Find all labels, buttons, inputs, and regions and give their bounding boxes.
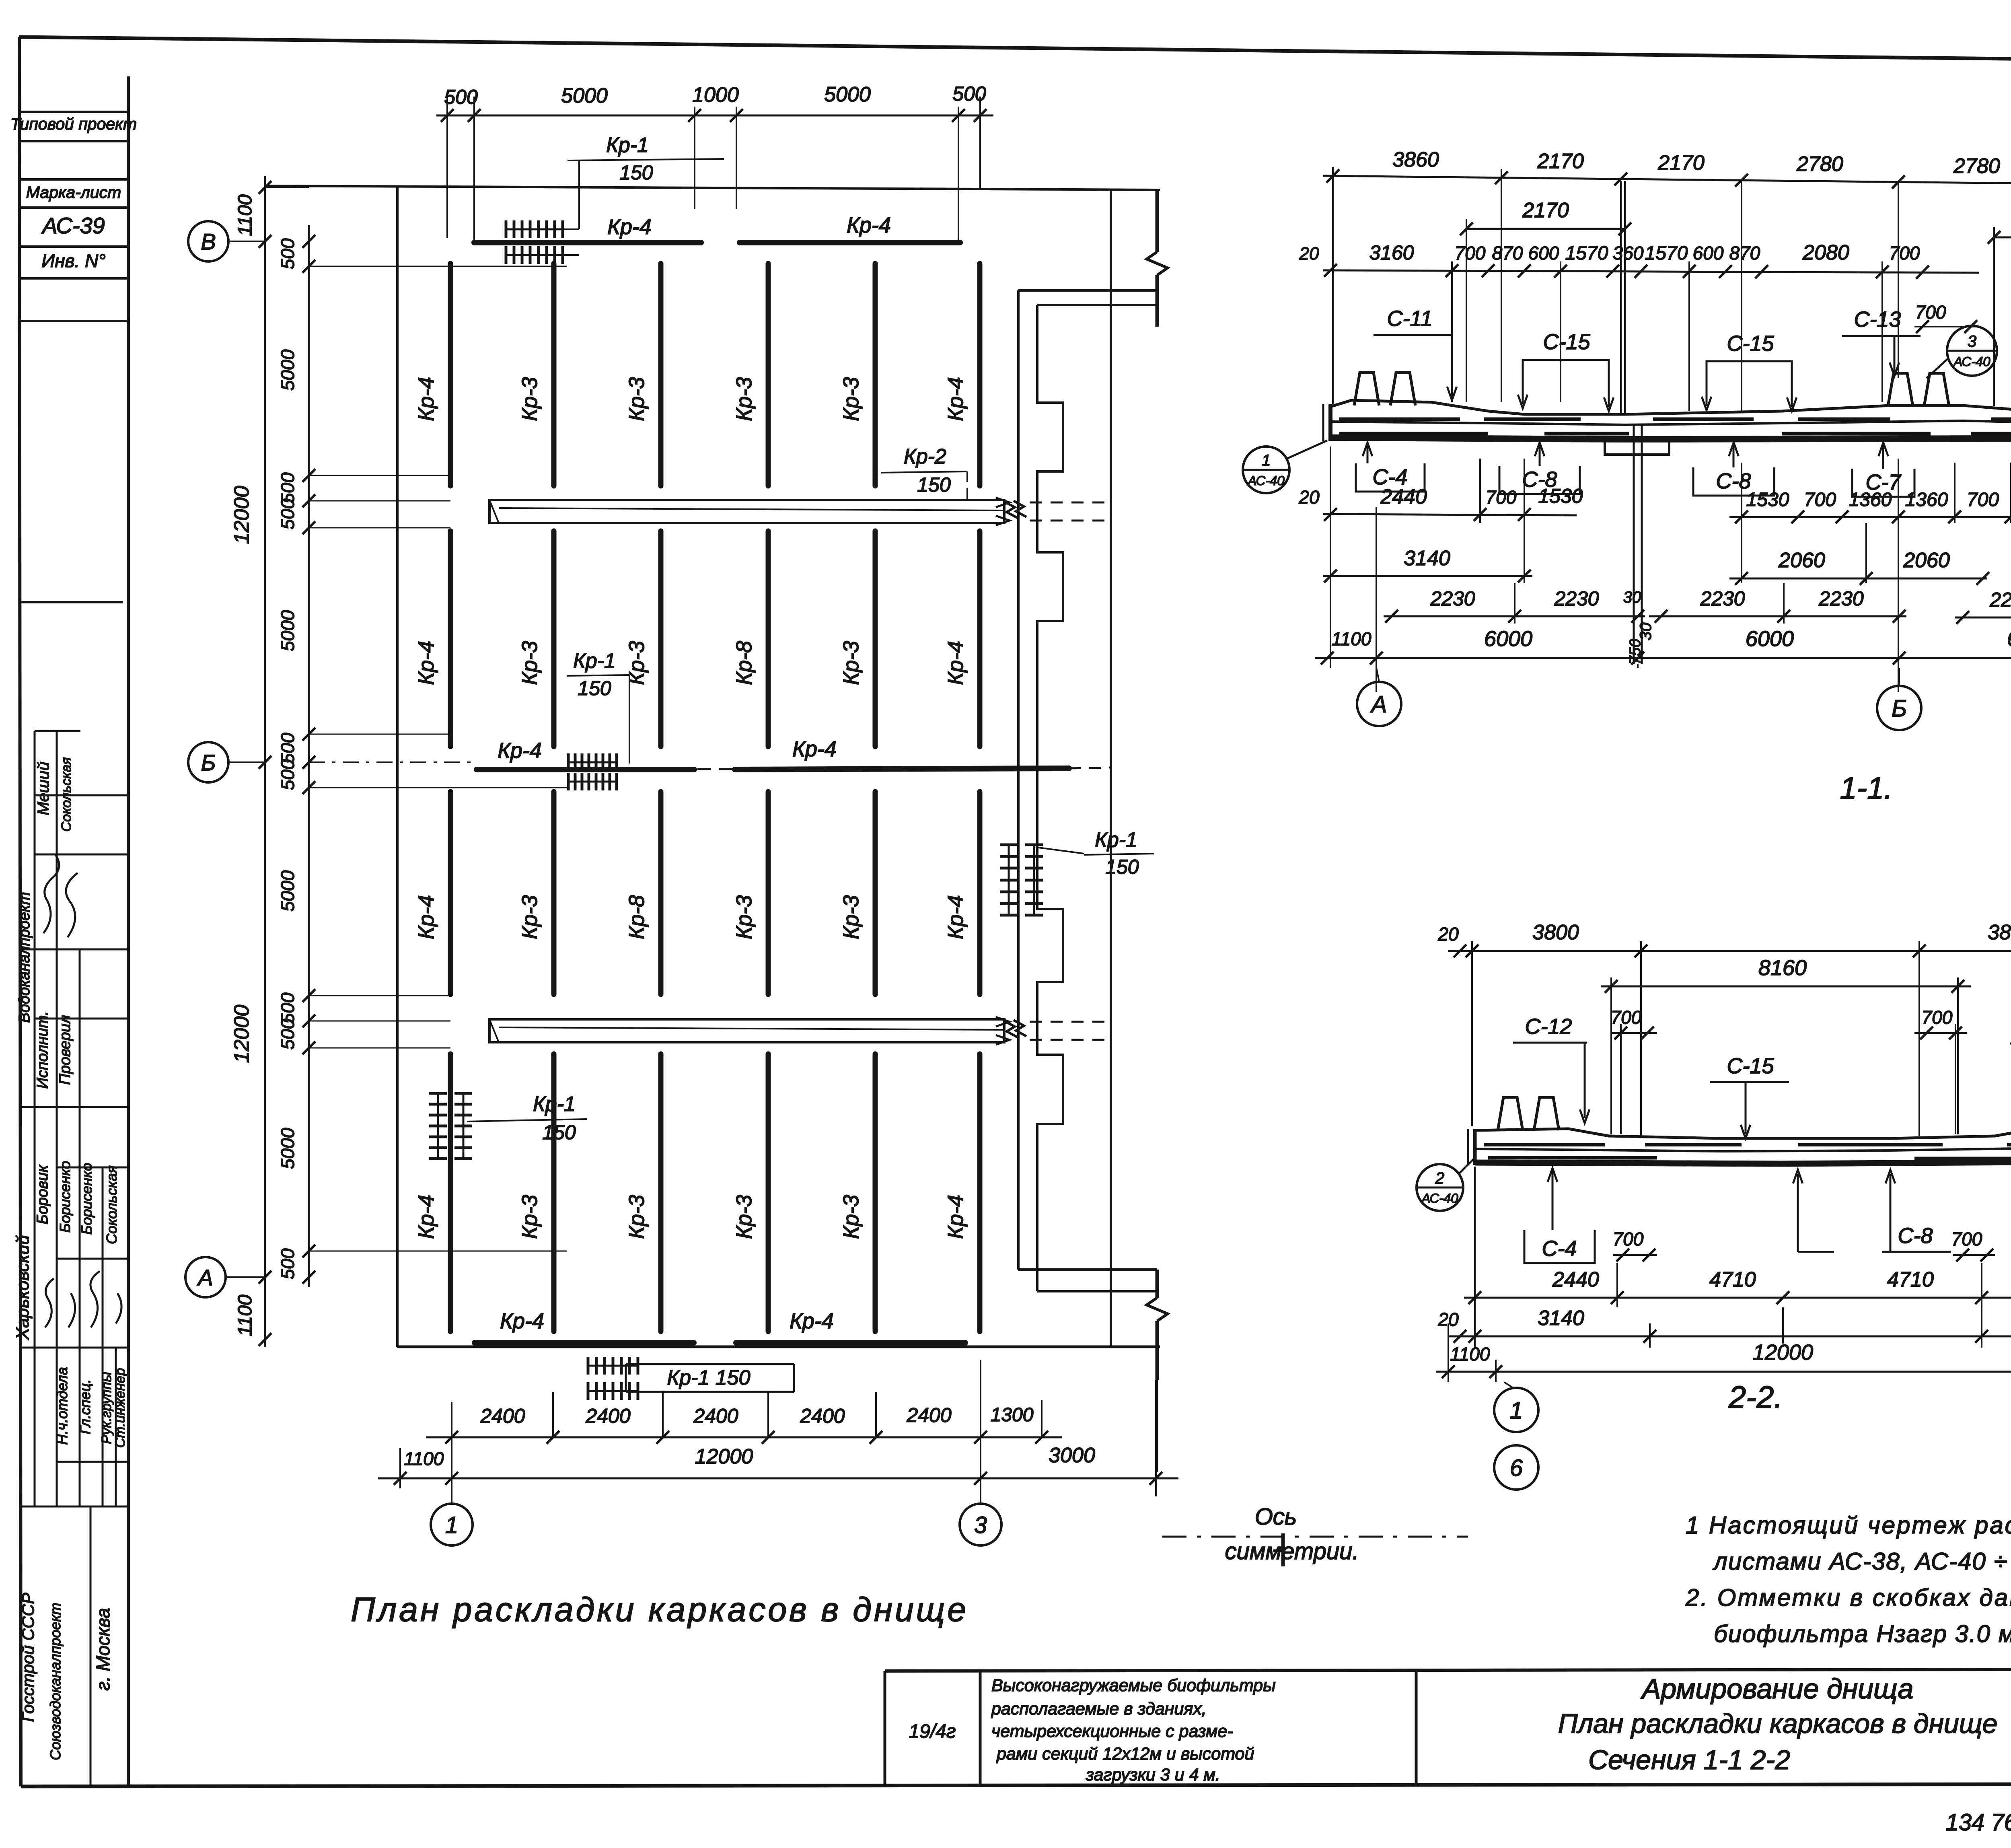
top dim extension lines <box>446 97 448 238</box>
svg-text:1100: 1100 <box>234 1294 256 1336</box>
svg-text:Б: Б <box>1892 696 1907 722</box>
svg-text:С-8: С-8 <box>1898 1224 1933 1248</box>
svg-text:Кр-4: Кр-4 <box>498 739 542 763</box>
vertical bar Кр-8 band 2 <box>766 531 771 747</box>
left inner dim chain (500/5000) <box>308 225 310 1287</box>
vertical bar Кр-3 band 4 <box>873 1054 878 1331</box>
svg-text:симметрии.: симметрии. <box>1225 1538 1359 1564</box>
svg-text:2400: 2400 <box>906 1404 951 1426</box>
svg-text:3160: 3160 <box>1369 241 1414 264</box>
svg-text:АС-40: АС-40 <box>1953 354 1990 369</box>
svg-text:30: 30 <box>1637 623 1655 641</box>
svg-text:Кр-1: Кр-1 <box>606 134 649 157</box>
svg-text:1530: 1530 <box>1538 485 1583 507</box>
section 2-2 slab second line <box>1475 1147 2011 1151</box>
svg-text:2400: 2400 <box>585 1405 630 1427</box>
svg-text:6000: 6000 <box>2007 627 2011 651</box>
svg-text:Армирование днища: Армирование днища <box>1641 1673 1914 1704</box>
svg-text:1100: 1100 <box>404 1448 444 1469</box>
callout circle 2/АС-40 <box>1417 1164 1463 1211</box>
svg-text:Кр-3: Кр-3 <box>625 641 649 685</box>
svg-text:В: В <box>201 229 216 254</box>
svg-text:2170: 2170 <box>1537 150 1584 173</box>
plan left edge <box>396 186 399 1347</box>
section 2-2 slab top line <box>1475 1129 2011 1138</box>
svg-text:Сокольская: Сокольская <box>103 1165 120 1244</box>
svg-text:Боровик: Боровик <box>34 1164 51 1224</box>
bottom dim extension lines <box>552 1392 554 1437</box>
svg-text:3: 3 <box>974 1512 987 1538</box>
svg-text:19/4г: 19/4г <box>909 1721 956 1742</box>
svg-text:2060: 2060 <box>1778 549 1825 572</box>
svg-text:700: 700 <box>1613 1229 1644 1249</box>
svg-text:Проверил: Проверил <box>57 1015 74 1085</box>
bottom dim row 2400s <box>426 1436 1062 1438</box>
svg-text:Кр-3: Кр-3 <box>518 377 542 421</box>
svg-text:870: 870 <box>1729 243 1760 263</box>
svg-text:рами секций 12х12м и высотой: рами секций 12х12м и высотой <box>996 1744 1254 1764</box>
svg-text:700: 700 <box>1922 1007 1953 1028</box>
svg-text:С-15: С-15 <box>1727 331 1774 356</box>
svg-text:Сокольская: Сокольская <box>59 757 74 832</box>
svg-text:3140: 3140 <box>1538 1307 1584 1330</box>
label box С-8 b <box>1693 467 1774 496</box>
svg-text:30: 30 <box>1623 589 1641 606</box>
svg-text:С-4: С-4 <box>1542 1237 1577 1261</box>
svg-text:360: 360 <box>1613 243 1644 263</box>
svg-text:Кр-4: Кр-4 <box>944 641 968 685</box>
2-2 dim row F <box>1436 1371 2011 1373</box>
svg-text:150: 150 <box>578 677 611 700</box>
signature scribbles <box>43 855 59 933</box>
svg-text:Кр-8: Кр-8 <box>625 895 649 939</box>
svg-text:Кр-3: Кр-3 <box>732 895 756 939</box>
svg-text:3140: 3140 <box>1404 547 1450 570</box>
stamp column right edge <box>127 76 130 1786</box>
svg-text:С-15: С-15 <box>1727 1054 1774 1078</box>
svg-text:Госстрой СССР: Госстрой СССР <box>19 1593 37 1722</box>
wall inner face <box>1110 189 1112 1347</box>
svg-text:Кр-3: Кр-3 <box>839 641 863 685</box>
page border top <box>19 37 2011 64</box>
svg-text:Кр-3: Кр-3 <box>732 1195 756 1239</box>
svg-text:150: 150 <box>542 1121 576 1144</box>
plan bottom edge <box>397 1346 1160 1348</box>
svg-text:А: А <box>1370 691 1387 718</box>
svg-text:2230: 2230 <box>1989 589 2011 611</box>
bottom dim row 1100/12000/3000 <box>378 1478 1178 1480</box>
svg-text:1570: 1570 <box>1565 243 1608 264</box>
vertical bar Кр-4 band 1 <box>977 263 983 486</box>
svg-text:Кр-4: Кр-4 <box>414 1195 438 1239</box>
Кр-4 bar row at axis А <box>475 1340 694 1346</box>
svg-text:Кр-3: Кр-3 <box>625 1195 649 1239</box>
axis circle 3 <box>960 1504 1001 1545</box>
1-1 extension verticals above slab <box>1332 167 1334 404</box>
svg-text:700: 700 <box>1486 487 1517 508</box>
2-2 dim row E <box>1448 1336 2011 1338</box>
vertical bar Кр-4 band 4 <box>448 1054 453 1331</box>
svg-text:Кр-4: Кр-4 <box>944 1195 968 1239</box>
1-1 dim row B left 2170 <box>1466 228 1625 230</box>
svg-text:3000: 3000 <box>1049 1444 1095 1467</box>
vertical bar Кр-4 band 4 <box>977 1054 983 1331</box>
svg-text:Рук.группы: Рук.группы <box>99 1372 114 1444</box>
svg-text:Б: Б <box>201 750 216 775</box>
svg-text:8160: 8160 <box>1758 956 1807 980</box>
label Кр-1 150 box bottom <box>626 1363 794 1365</box>
svg-text:12000: 12000 <box>695 1445 753 1468</box>
svg-text:листами АС-38, АС-40 ÷ АС-46: листами АС-38, АС-40 ÷ АС-46. <box>1713 1548 2011 1575</box>
left outer dim chain (1100/12000) <box>264 176 266 1347</box>
1-1 dim row F <box>1384 615 1645 617</box>
label box С-4 2-2 <box>1524 1230 1595 1263</box>
plan top edge <box>265 186 1160 190</box>
axis circle В <box>188 221 228 261</box>
callout circle 1/АС-40 left <box>1243 447 1289 493</box>
left dim extension stubs <box>309 266 567 267</box>
section 2-2 slab bottom bold <box>1475 1162 2011 1164</box>
beam strip 2 <box>489 1019 1004 1042</box>
2-2 extension verticals above <box>1471 941 1473 1126</box>
svg-text:1-1.: 1-1. <box>1840 771 1893 805</box>
rebar dashes 2-2 <box>1484 1143 1605 1146</box>
callout circle 3/АС-40 <box>1947 326 1997 376</box>
svg-text:3860: 3860 <box>1392 148 1439 171</box>
svg-text:Кр-3: Кр-3 <box>839 895 863 939</box>
2-2 extension verticals below <box>1474 1167 1476 1348</box>
label box С-4 left <box>1356 463 1425 492</box>
svg-text:Союзводоканалпроект: Союзводоканалпроект <box>47 1603 64 1760</box>
svg-text:700: 700 <box>1889 243 1920 263</box>
svg-text:2-2.: 2-2. <box>1728 1379 1783 1415</box>
humps section 1-1 center <box>1888 373 1949 406</box>
svg-text:500: 500 <box>277 733 298 763</box>
wall top double lines <box>1018 289 1157 292</box>
svg-text:2170: 2170 <box>1522 199 1569 222</box>
svg-text:Кр-4: Кр-4 <box>414 895 438 939</box>
vertical bar Кр-3 band 3 <box>766 792 771 994</box>
svg-text:Кр-4: Кр-4 <box>414 641 438 685</box>
svg-text:1300: 1300 <box>991 1404 1034 1426</box>
svg-text:1: 1 <box>1262 452 1271 469</box>
svg-text:500: 500 <box>952 82 986 105</box>
svg-text:Кр-1: Кр-1 <box>533 1093 576 1116</box>
svg-text:Кр-1: Кр-1 <box>573 649 616 673</box>
svg-text:2. Отметки в скобках даны для: 2. Отметки в скобках даны для высоты заг… <box>1685 1584 2011 1611</box>
svg-text:700: 700 <box>1611 1007 1642 1028</box>
vertical bar Кр-4 band 1 <box>448 263 453 486</box>
svg-text:четырехсекционные с разме-: четырехсекционные с разме- <box>991 1722 1233 1741</box>
svg-text:Кр-4: Кр-4 <box>792 737 837 761</box>
vertical bar Кр-3 band 4 <box>658 1054 664 1331</box>
svg-text:3800: 3800 <box>1532 921 1579 944</box>
svg-text:Борисенко: Борисенко <box>78 1163 95 1235</box>
svg-text:500: 500 <box>277 238 298 269</box>
vertical bar Кр-4 band 3 <box>977 792 983 994</box>
svg-text:С-15: С-15 <box>1543 330 1590 354</box>
svg-text:1530: 1530 <box>1746 489 1789 510</box>
axis circle 1 <box>431 1504 473 1545</box>
svg-text:6000: 6000 <box>1746 627 1794 651</box>
wall outer line upper segment with break <box>1156 189 1159 252</box>
svg-text:С-12: С-12 <box>1525 1015 1572 1039</box>
svg-text:Ст.инженер: Ст.инженер <box>113 1368 128 1448</box>
svg-text:Сечения 1-1 2-2: Сечения 1-1 2-2 <box>1588 1745 1790 1775</box>
svg-text:600: 600 <box>1528 243 1559 263</box>
vertical bar Кр-3 band 3 <box>873 792 878 994</box>
2-2 dim row B 8160 <box>1601 986 1971 988</box>
svg-text:500: 500 <box>444 86 478 108</box>
svg-text:Кр-4: Кр-4 <box>790 1309 834 1333</box>
svg-text:Кр-3: Кр-3 <box>518 1195 542 1239</box>
humps section 1-1 left <box>1354 372 1415 405</box>
svg-text:1570: 1570 <box>1645 243 1688 264</box>
svg-text:2230: 2230 <box>1554 587 1599 610</box>
svg-text:Кр-4: Кр-4 <box>607 215 652 239</box>
symmetry axis marker <box>1281 1533 1285 1566</box>
svg-text:150: 150 <box>619 161 653 184</box>
page border left <box>19 37 21 1786</box>
svg-text:Высоконагружаемые биофильтры: Высоконагружаемые биофильтры <box>991 1676 1276 1695</box>
hatch combs at В <box>506 228 563 230</box>
stamp top cells <box>19 111 128 113</box>
svg-text:500: 500 <box>277 1019 298 1050</box>
vertical bar Кр-3 band 1 <box>658 263 664 486</box>
wall long inner vertical <box>1017 290 1020 1270</box>
vertical bar Кр-4 band 2 <box>977 531 983 747</box>
svg-text:5000: 5000 <box>561 84 608 107</box>
svg-text:План раскладки каркасов в д: План раскладки каркасов в днище <box>351 1591 968 1628</box>
stamp bottom org cell <box>90 1506 92 1786</box>
svg-text:700: 700 <box>1951 1229 1982 1249</box>
svg-text:2440: 2440 <box>1552 1268 1599 1291</box>
svg-text:2230: 2230 <box>1818 587 1863 610</box>
joint 1 below slab <box>1633 425 1635 664</box>
svg-text:Кр-3: Кр-3 <box>839 377 863 421</box>
svg-text:4710: 4710 <box>1709 1268 1756 1291</box>
svg-text:Гл.спец.: Гл.спец. <box>77 1379 93 1434</box>
hatch combs at Б <box>568 761 617 763</box>
svg-text:12000: 12000 <box>1753 1340 1813 1364</box>
svg-text:План раскладки каркасов в д: План раскладки каркасов в днище <box>1558 1708 1998 1739</box>
svg-text:Кр-3: Кр-3 <box>732 377 756 421</box>
rebar dashes bottom layer <box>1339 432 1488 436</box>
stamp mid line <box>19 601 123 603</box>
section 1-1 slab top line <box>1330 399 2011 414</box>
vertical bar Кр-3 band 1 <box>551 263 557 486</box>
svg-text:2400: 2400 <box>693 1405 738 1427</box>
svg-text:Инв. N°: Инв. N° <box>41 250 105 271</box>
svg-text:2780: 2780 <box>1796 152 1843 176</box>
svg-text:3: 3 <box>1968 333 1976 350</box>
svg-text:АС-40: АС-40 <box>1421 1191 1458 1206</box>
svg-text:Меший: Меший <box>35 761 52 815</box>
humps 2-2 left <box>1498 1097 1559 1130</box>
svg-text:700: 700 <box>1455 243 1486 263</box>
Кр-4 bar row at axis В <box>474 240 701 245</box>
svg-text:С-11: С-11 <box>1387 307 1432 331</box>
signature table lines <box>35 730 80 732</box>
svg-text:2230: 2230 <box>1430 587 1475 610</box>
svg-text:располагаемые в зданиях,: располагаемые в зданиях, <box>991 1699 1207 1718</box>
vertical bar Кр-4 band 2 <box>448 531 453 747</box>
axis circle 6 section 2-2 <box>1494 1445 1538 1490</box>
2-2 dim row A <box>1448 950 2011 952</box>
svg-text:1100: 1100 <box>1450 1344 1490 1364</box>
svg-text:20: 20 <box>1437 924 1459 945</box>
svg-text:А: А <box>197 1265 213 1290</box>
svg-text:С-13: С-13 <box>1854 307 1901 331</box>
vertical bar Кр-3 band 4 <box>551 1054 557 1331</box>
svg-text:4710: 4710 <box>1887 1268 1934 1291</box>
2-2 dim row D <box>1464 1297 2011 1299</box>
svg-text:6000: 6000 <box>1484 627 1532 651</box>
hatch combs at А <box>588 1365 638 1367</box>
svg-text:Кр-8: Кр-8 <box>732 641 756 685</box>
svg-text:2230: 2230 <box>1700 587 1745 610</box>
wall outer line lower segment with break <box>1156 1270 1159 1298</box>
svg-text:2080: 2080 <box>1802 241 1849 264</box>
svg-text:5000: 5000 <box>277 1128 298 1169</box>
svg-text:Кр-3: Кр-3 <box>839 1195 863 1239</box>
1-1 dim row C <box>1323 270 1979 273</box>
svg-text:150: 150 <box>1105 856 1139 878</box>
axis circle 1 section 2-2 <box>1494 1388 1538 1432</box>
vertical bar Кр-3 band 2 <box>658 531 664 747</box>
section 1-1 slab second line <box>1330 418 2011 425</box>
svg-text:1: 1 <box>445 1512 458 1538</box>
1-1 dim row E <box>1323 575 1532 577</box>
svg-text:700: 700 <box>1804 489 1836 510</box>
title block outline <box>885 1669 2011 1671</box>
vertical bar Кр-3 band 3 <box>551 792 557 994</box>
svg-text:Кр-4: Кр-4 <box>847 213 891 237</box>
svg-text:5000: 5000 <box>277 610 298 651</box>
svg-text:134 76 -0: 134 76 -0 <box>1945 1809 2011 1836</box>
svg-text:Кр-4: Кр-4 <box>944 895 968 939</box>
vertical combs band3 left <box>437 1093 439 1159</box>
svg-text:Типовой проект: Типовой проект <box>10 115 137 133</box>
svg-text:5000: 5000 <box>277 870 298 912</box>
svg-text:1000: 1000 <box>692 83 739 107</box>
page border bottom <box>21 1784 2011 1786</box>
vertical bar Кр-8 band 3 <box>658 792 664 994</box>
vertical bar Кр-4 band 3 <box>448 792 453 994</box>
svg-text:1100: 1100 <box>234 194 256 236</box>
svg-text:Кр-3: Кр-3 <box>625 377 649 421</box>
axis circle А section 1-1 <box>1357 682 1401 726</box>
svg-text:20: 20 <box>1299 244 1319 263</box>
svg-text:АС-40: АС-40 <box>1247 473 1284 488</box>
svg-text:загрузки 3 и 4 м.: загрузки 3 и 4 м. <box>1086 1765 1220 1784</box>
svg-text:2060: 2060 <box>1903 549 1950 572</box>
vertical bar Кр-3 band 2 <box>551 531 557 747</box>
rebar dashes top layer <box>1339 418 1460 421</box>
svg-text:Марка-лист: Марка-лист <box>26 183 121 202</box>
svg-text:АС-39: АС-39 <box>41 213 105 238</box>
svg-text:870: 870 <box>1492 243 1523 263</box>
svg-text:700: 700 <box>1915 302 1946 323</box>
wall castellated inner edge <box>1037 305 1063 1291</box>
svg-text:1100: 1100 <box>1332 628 1372 649</box>
svg-text:1360: 1360 <box>1849 489 1892 510</box>
svg-text:6: 6 <box>1510 1455 1523 1481</box>
1-1 dim row G (axes) <box>1315 657 2011 659</box>
label box С-8 a <box>1499 466 1580 494</box>
svg-text:2400: 2400 <box>480 1405 525 1427</box>
section 2-2 left edge <box>1473 1129 1477 1165</box>
svg-text:Кр-4: Кр-4 <box>944 377 968 421</box>
svg-text:Кр-1: Кр-1 <box>1095 828 1137 852</box>
svg-text:700: 700 <box>1967 489 1999 510</box>
svg-text:12000: 12000 <box>230 1005 253 1063</box>
svg-text:1: 1 <box>1510 1397 1523 1424</box>
svg-text:Борисенко: Борисенко <box>57 1161 73 1233</box>
section 1-1 slab bottom bold line <box>1330 435 2011 439</box>
svg-text:2: 2 <box>1435 1169 1444 1187</box>
svg-text:Кр-4: Кр-4 <box>500 1309 544 1333</box>
svg-text:Кр-4: Кр-4 <box>414 377 438 421</box>
axis circle Б <box>188 742 228 782</box>
svg-text:г. Москва: г. Москва <box>93 1608 113 1690</box>
svg-text:1 Настоящий чертеж рассматр: 1 Настоящий чертеж рассматривать совмест… <box>1686 1512 2011 1539</box>
svg-text:Исполнит.: Исполнит. <box>34 1011 51 1089</box>
svg-text:12000: 12000 <box>230 486 253 544</box>
svg-text:500: 500 <box>277 1248 298 1279</box>
svg-text:2400: 2400 <box>800 1405 845 1427</box>
svg-text:2170: 2170 <box>1657 151 1705 175</box>
svg-text:Н.ч.отдела: Н.ч.отдела <box>54 1367 70 1445</box>
svg-text:500: 500 <box>277 498 298 529</box>
axis circle А <box>185 1257 226 1297</box>
section 1-1 left edge <box>1328 404 1332 441</box>
plan top dimension line 500 5000 1000 5000 500 <box>436 115 993 117</box>
svg-text:1360: 1360 <box>1905 489 1948 510</box>
svg-text:Кр-3: Кр-3 <box>518 641 542 685</box>
svg-text:20: 20 <box>1298 487 1320 508</box>
svg-text:Кр-2: Кр-2 <box>904 445 946 468</box>
svg-text:5000: 5000 <box>824 83 871 106</box>
beam strip 1 <box>489 500 1004 523</box>
1-1 dim row D <box>1323 514 1577 515</box>
vertical bar Кр-3 band 1 <box>873 263 878 486</box>
Кр-4 bar row at axis Б <box>477 767 694 772</box>
1-1 extension verticals below slab <box>1330 447 1331 668</box>
svg-text:2780: 2780 <box>1953 154 2000 178</box>
label box С-7 <box>1852 469 1914 497</box>
vertical bar Кр-3 band 2 <box>873 531 878 747</box>
svg-text:3800: 3800 <box>1988 921 2011 944</box>
1-1 top dim row A <box>1323 176 2011 188</box>
svg-text:С-8: С-8 <box>1716 469 1751 493</box>
svg-text:600: 600 <box>1693 243 1724 263</box>
axis circle Б section 1-1 <box>1877 686 1921 730</box>
svg-text:150: 150 <box>917 473 951 496</box>
svg-text:500: 500 <box>277 759 298 790</box>
vertical bar Кр-3 band 1 <box>766 263 771 486</box>
svg-text:Водоканалпроект: Водоканалпроект <box>16 892 33 1023</box>
svg-text:2440: 2440 <box>1380 485 1427 508</box>
svg-text:Кр-1 150: Кр-1 150 <box>667 1366 750 1389</box>
svg-text:биофильтра Нзагр 3.0 м.: биофильтра Нзагр 3.0 м. <box>1714 1620 2011 1647</box>
svg-text:Кр-3: Кр-3 <box>518 895 542 939</box>
svg-text:5000: 5000 <box>277 349 298 391</box>
svg-text:Ось: Ось <box>1255 1504 1297 1530</box>
svg-text:Харьковский: Харьковский <box>13 1235 33 1340</box>
vertical bar Кр-3 band 4 <box>766 1054 771 1331</box>
wall bottom double lines <box>1018 1268 1157 1271</box>
